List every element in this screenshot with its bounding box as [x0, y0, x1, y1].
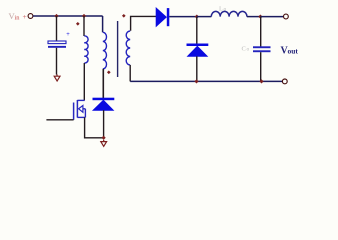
ground input: [54, 75, 60, 82]
terminal Vout minus: [282, 79, 287, 84]
wire winding2 top lead: [102, 16, 104, 32]
terminal Vout plus: [284, 14, 289, 19]
transformer winding W1 primary: [84, 36, 88, 63]
wire output cap bottom lead: [260, 52, 262, 81]
wire secondary bottom lead: [129, 65, 131, 81]
wire top rail: [33, 15, 103, 17]
node junction output cap bottom: [259, 79, 263, 83]
wire winding1 bottom lead / drain lead: [83, 63, 85, 100]
node junction freewheel top: [195, 14, 199, 18]
wire bottom rail: [130, 80, 282, 82]
wire clamp diode top lead: [102, 69, 104, 98]
svg-text:C: C: [242, 46, 246, 53]
wire winding1 top lead: [83, 16, 85, 36]
wire freewheel bottom lead: [196, 56, 198, 81]
diode D2 output rectifier: [156, 8, 169, 26]
node junction output cap top: [258, 14, 262, 18]
diode D1 clamp: [93, 98, 115, 111]
wire winding2 bottom lead: [102, 69, 104, 98]
diode D3 freewheel: [187, 44, 209, 57]
capacitor Co: [253, 46, 271, 52]
wire junction to inductor: [197, 16, 212, 18]
node junction source clamp: [101, 136, 105, 140]
svg-text:out: out: [288, 47, 299, 56]
inductor Lo: [211, 11, 247, 16]
svg-text:o: o: [247, 47, 250, 53]
label Vout: [281, 46, 299, 57]
transistor Q1 MOSFET: [74, 100, 86, 120]
ground primary: [101, 140, 107, 147]
node junction winding1: [82, 14, 86, 18]
terminal Vin: [28, 14, 33, 19]
wire rectifier to junction: [169, 16, 197, 18]
wire clamp diode bottom lead: [103, 110, 105, 138]
wire output cap top lead: [260, 17, 262, 47]
svg-text:in: in: [15, 15, 21, 22]
node dot winding2 polarity: [107, 70, 111, 74]
wire junction to output terminal: [260, 16, 283, 18]
node dot winding1 polarity: [76, 22, 80, 26]
wire source lead: [85, 117, 104, 137]
capacitor Cin: [48, 32, 70, 48]
label Vin: [9, 11, 27, 22]
wire cap branch upper: [56, 16, 58, 41]
svg-text:+: +: [66, 32, 70, 38]
node junction freewheel bottom: [194, 79, 198, 83]
wire cap branch lower: [56, 48, 58, 75]
svg-text:+: +: [23, 12, 27, 21]
wire gate lead: [46, 119, 73, 121]
transformer winding W3 secondary: [126, 31, 130, 65]
transformer winding W2 reset: [103, 32, 107, 69]
wire inductor to junction: [247, 16, 261, 18]
wire secondary top lead: [131, 16, 157, 30]
transformer core: [117, 21, 119, 77]
node junction cap input: [54, 14, 58, 18]
node dot secondary polarity: [122, 14, 126, 18]
wire freewheel top lead: [196, 17, 198, 44]
